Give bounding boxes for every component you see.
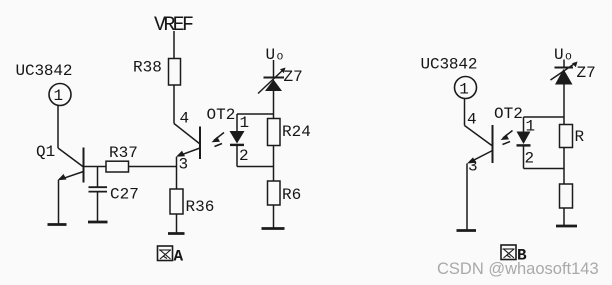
- ground (Q1 emitter): [48, 223, 67, 226]
- net Uo (figure A): [266, 46, 284, 64]
- zener diode Z7 (figure B): [551, 62, 596, 85]
- resistor R6: [268, 181, 302, 205]
- wire LED anode to Uo branch: [237, 113, 274, 115]
- wire Uo to Z7: [273, 60, 275, 78]
- resistor R (figure B): [560, 125, 585, 148]
- svg-text:1: 1: [53, 87, 63, 105]
- wire R24 to R6: [273, 146, 275, 182]
- wire R6 to ground: [273, 205, 275, 228]
- pin 3 label (OT2 B): [468, 158, 478, 176]
- wire VREF to R38: [173, 31, 175, 59]
- pin 1 bubble of UC3842 (figure B): [455, 77, 477, 99]
- net Uo (figure B): [554, 46, 572, 64]
- svg-text:2: 2: [239, 147, 249, 165]
- wire LED cathode to resistor junction (figure B): [524, 168, 565, 170]
- svg-text:UC3842: UC3842: [421, 56, 478, 74]
- wire Z7 to R (figure B): [563, 85, 565, 125]
- wire R36 to ground: [176, 214, 178, 233]
- svg-text:R: R: [575, 128, 585, 146]
- wire LED cathode to R24/R6 junction: [237, 166, 274, 168]
- figure label B: [501, 245, 527, 265]
- wire pin 3 to ground: [466, 164, 468, 231]
- resistor R37: [106, 144, 138, 172]
- svg-text:R37: R37: [109, 144, 138, 162]
- net VREF: [154, 14, 194, 37]
- wire Q1 emitter to ground: [58, 180, 60, 224]
- svg-text:R24: R24: [282, 123, 311, 141]
- pin 3 label (OT2 A): [179, 156, 189, 174]
- ground (R36): [168, 232, 185, 235]
- svg-text:R38: R38: [133, 59, 162, 77]
- ground (pin 3, figure B): [457, 229, 477, 232]
- svg-text:3: 3: [468, 158, 478, 176]
- wire Z7 to R24: [273, 91, 275, 119]
- wire pin1 to pin 4: [464, 99, 466, 126]
- svg-text:4: 4: [180, 110, 190, 128]
- wire lower resistor to ground (figure B): [563, 208, 565, 226]
- capacitor C27: [89, 167, 139, 222]
- transistor Q1: [36, 143, 84, 183]
- svg-text:UC3842: UC3842: [16, 62, 73, 80]
- svg-text:3: 3: [179, 156, 189, 174]
- svg-text:o: o: [277, 51, 284, 64]
- light arrows OT2 (figure B): [501, 131, 513, 145]
- optocoupler OT2 phototransistor (figure B): [465, 105, 523, 164]
- ground (R6): [262, 227, 285, 230]
- svg-text:OT2: OT2: [494, 105, 523, 123]
- LED of optocoupler OT2 (figure B), pins 1 and 2: [517, 117, 536, 169]
- svg-text:Z7: Z7: [284, 68, 303, 86]
- pin 1 bubble of UC3842 (figure A): [49, 84, 71, 106]
- pin 4 label (OT2 A): [180, 110, 190, 128]
- wire Q1 base to node: [84, 166, 107, 168]
- resistor R36: [170, 189, 214, 216]
- ground (figure B right branch): [556, 225, 577, 228]
- svg-text:R6: R6: [282, 186, 301, 204]
- wire Uo to Z7 (figure B): [563, 60, 565, 68]
- wire R37 to node 3: [129, 166, 177, 168]
- figure label A: [158, 246, 184, 266]
- IC label UC3842 (figure A): [16, 62, 73, 80]
- svg-text:o: o: [565, 51, 572, 64]
- svg-text:4: 4: [467, 111, 477, 129]
- IC label UC3842 (figure B): [421, 56, 478, 74]
- wire pin1 to Q1 collector: [57, 106, 59, 149]
- resistor R24: [268, 119, 311, 146]
- zener diode Z7 (figure A): [258, 68, 303, 94]
- svg-text:1: 1: [459, 81, 469, 99]
- ground (C27): [88, 221, 108, 224]
- svg-text:U: U: [554, 46, 564, 64]
- lower resistor (unlabeled, figure B): [560, 184, 573, 208]
- svg-text:Q1: Q1: [36, 143, 55, 161]
- svg-text:OT2: OT2: [207, 106, 236, 124]
- light arrows OT2 (figure A): [212, 133, 225, 147]
- resistor R38: [133, 59, 181, 86]
- svg-text:R36: R36: [186, 198, 215, 216]
- watermark: [437, 260, 599, 278]
- wire LED anode to Uo branch (figure B): [524, 116, 565, 118]
- svg-text:A: A: [174, 248, 184, 266]
- wire R38 to pin 4: [173, 85, 175, 124]
- svg-text:2: 2: [525, 150, 535, 168]
- pin 4 label (OT2 B): [467, 111, 477, 129]
- wire R to lower resistor (figure B): [563, 148, 565, 185]
- wire node 3 to R36: [176, 157, 178, 189]
- svg-text:1: 1: [240, 114, 250, 132]
- svg-text:C27: C27: [110, 186, 139, 204]
- LED of optocoupler OT2 (figure A), pins 1 and 2: [230, 114, 250, 167]
- svg-text:1: 1: [526, 118, 536, 136]
- svg-text:CSDN @whaosoft143: CSDN @whaosoft143: [437, 260, 599, 278]
- svg-text:Z7: Z7: [577, 64, 596, 82]
- optocoupler OT2 phototransistor (figure A): [174, 106, 235, 159]
